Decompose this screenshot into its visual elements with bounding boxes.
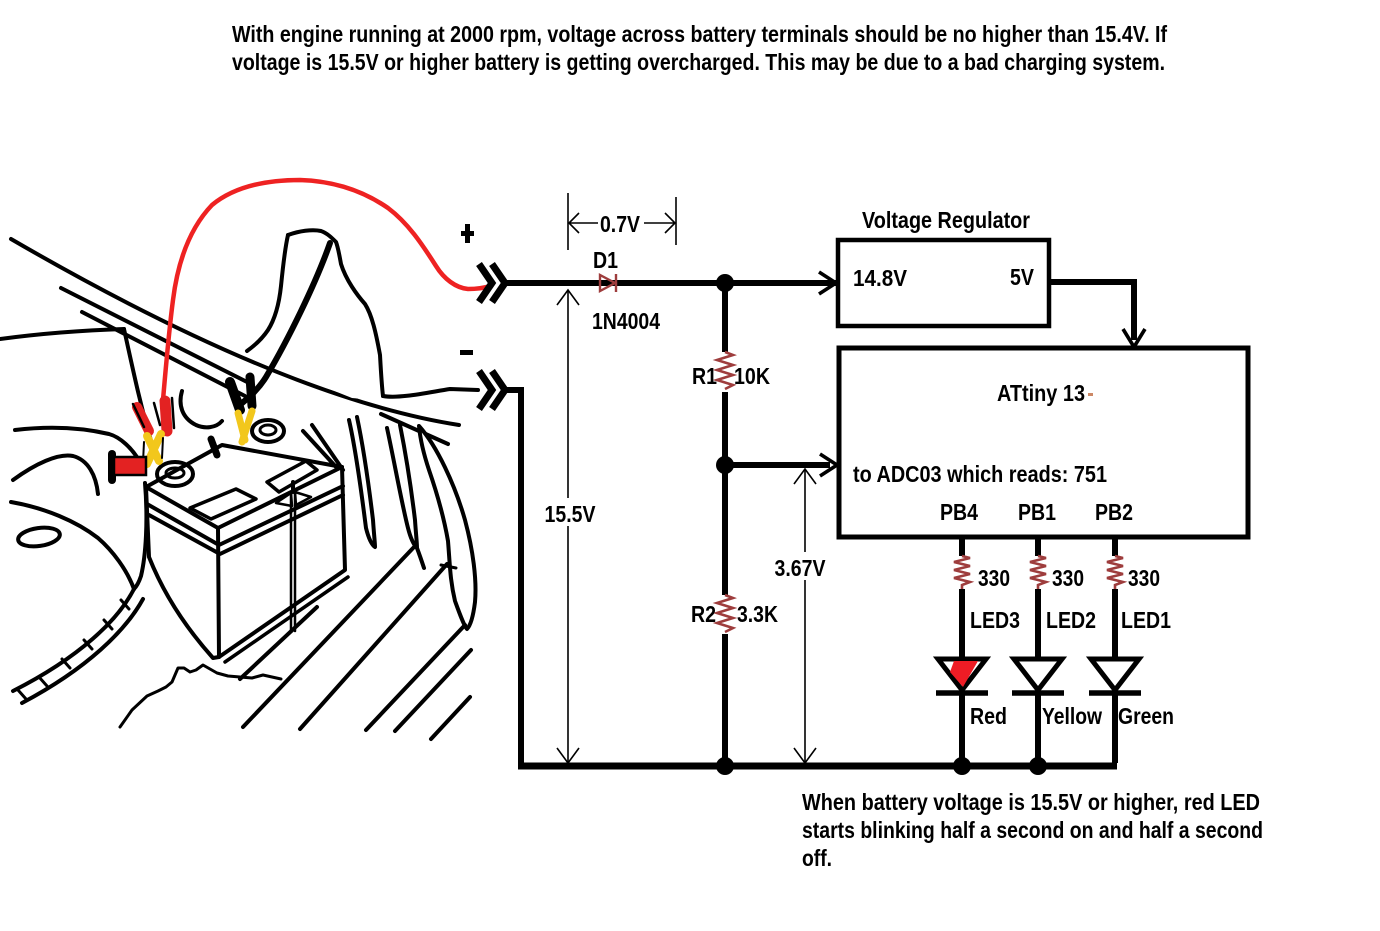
svg-text:off.: off. (802, 845, 832, 871)
svg-text:LED3: LED3 (970, 607, 1020, 633)
svg-text:1N4004: 1N4004 (592, 308, 660, 334)
svg-text:When battery voltage is 15.5V: When battery voltage is 15.5V or higher,… (802, 789, 1260, 815)
svg-text:14.8V: 14.8V (853, 265, 907, 291)
svg-text:330: 330 (1052, 565, 1084, 591)
svg-text:Green: Green (1118, 703, 1174, 729)
svg-text:to ADC03 which reads: 751: to ADC03 which reads: 751 (853, 461, 1107, 487)
svg-text:LED2: LED2 (1046, 607, 1096, 633)
svg-text:Yellow: Yellow (1042, 703, 1103, 729)
svg-text:330: 330 (978, 565, 1010, 591)
svg-text:Red: Red (970, 703, 1007, 729)
svg-text:5V: 5V (1010, 264, 1034, 290)
svg-text:PB2: PB2 (1095, 499, 1133, 525)
svg-text:PB4: PB4 (940, 499, 978, 525)
svg-text:10K: 10K (734, 363, 770, 389)
svg-text:3.67V: 3.67V (775, 555, 826, 581)
svg-text:R1: R1 (692, 363, 717, 389)
svg-text:330: 330 (1128, 565, 1160, 591)
svg-text:ATtiny 13: ATtiny 13 (997, 380, 1085, 406)
svg-text:15.5V: 15.5V (545, 501, 596, 527)
svg-text:0.7V: 0.7V (600, 211, 640, 237)
svg-text:PB1: PB1 (1018, 499, 1056, 525)
svg-text:starts blinking half a second: starts blinking half a second on and hal… (802, 817, 1263, 843)
svg-text:voltage is 15.5V or higher bat: voltage is 15.5V or higher battery is ge… (232, 49, 1165, 75)
svg-text:With engine running at 2000 rp: With engine running at 2000 rpm, voltage… (232, 21, 1167, 47)
svg-text:D1: D1 (593, 247, 618, 273)
svg-text:R2: R2 (691, 601, 716, 627)
svg-text:3.3K: 3.3K (737, 601, 778, 627)
svg-text:LED1: LED1 (1121, 607, 1171, 633)
svg-text:Voltage Regulator: Voltage Regulator (862, 207, 1030, 233)
